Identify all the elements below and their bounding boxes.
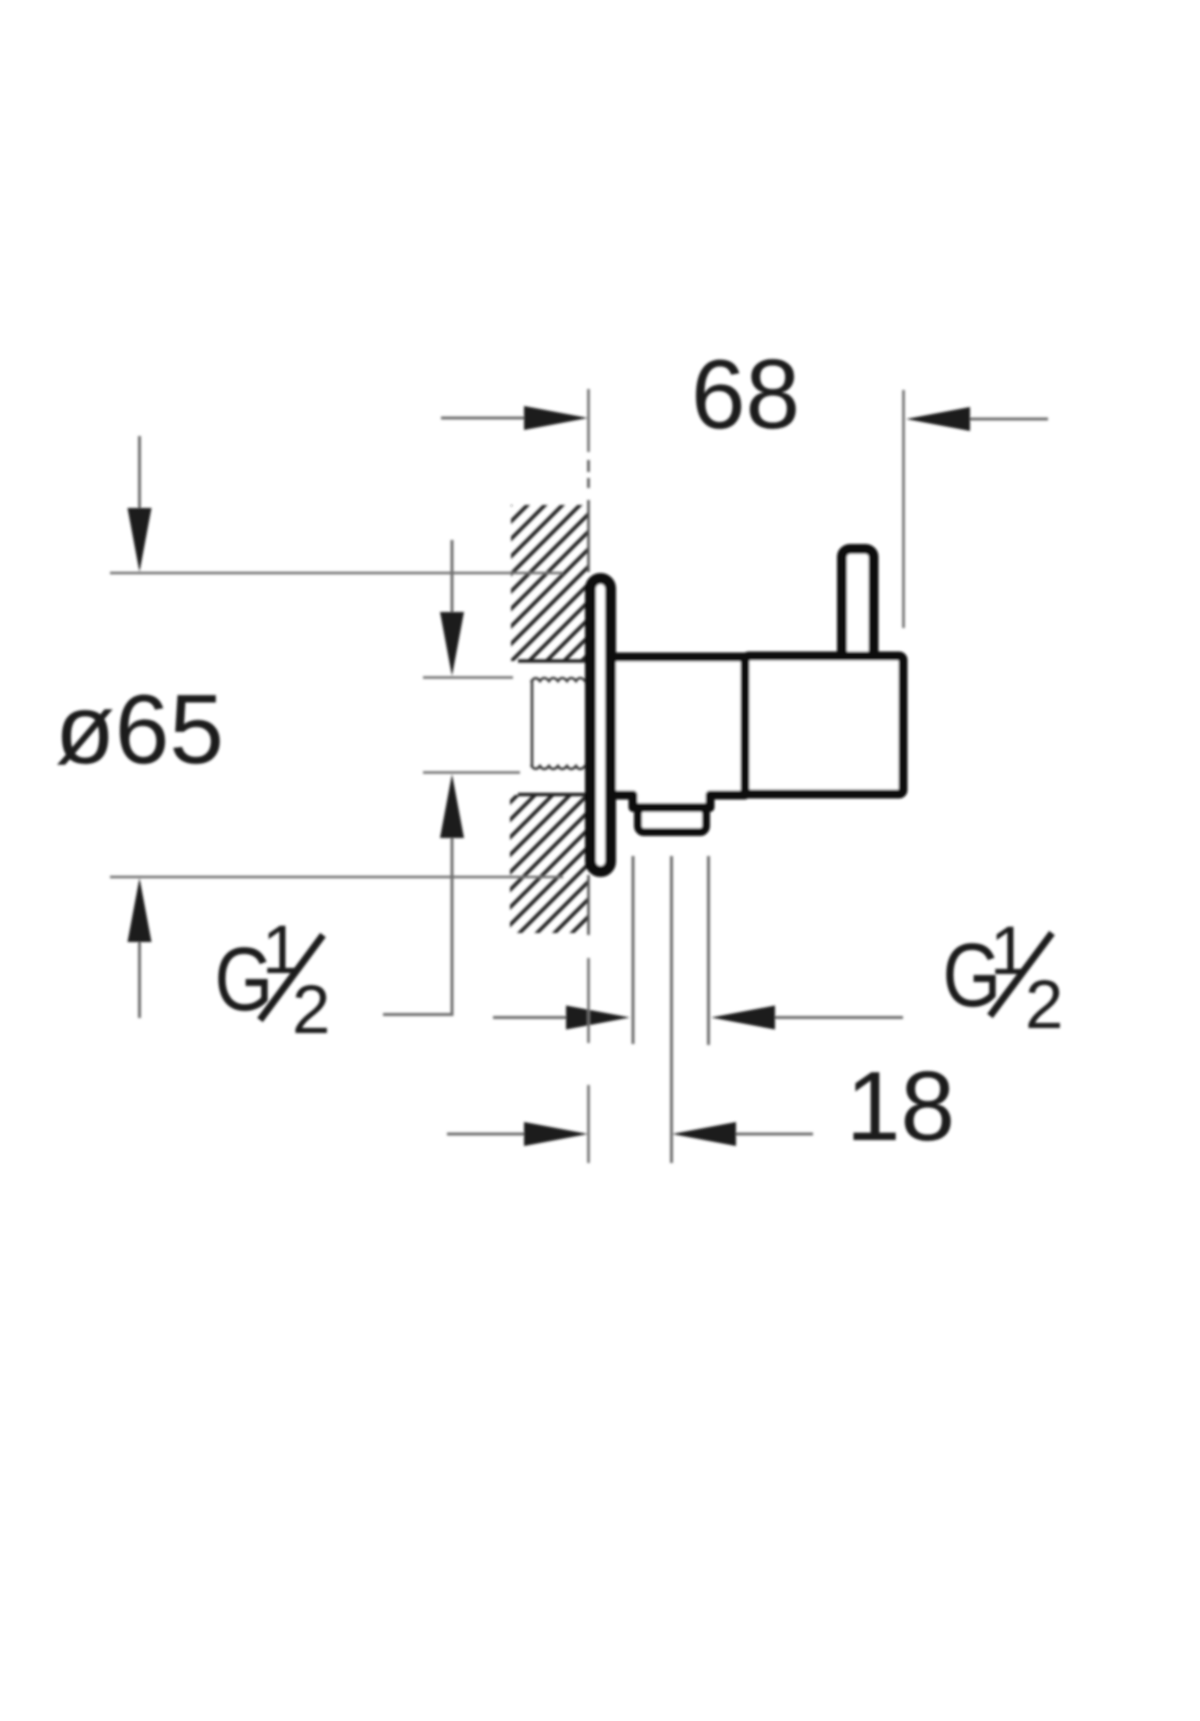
dimension ø65: upper extension line <box>110 572 563 575</box>
dimension 68: left extension line <box>587 389 590 452</box>
dimension 18: left line+arrow <box>447 1133 528 1136</box>
wall face line above flange <box>587 460 590 572</box>
threaded inlet pipe behind wall <box>531 678 590 769</box>
dimension ø65: lower extension line <box>110 876 563 879</box>
inlet thread dim: lower tick <box>423 771 520 774</box>
label G1/2 left <box>215 911 331 1048</box>
dimension ø65: lower arrow (up) <box>138 938 141 1018</box>
svg-text:2: 2 <box>1025 966 1063 1043</box>
wall cavity bottom boundary <box>518 793 588 796</box>
valve body right section outline <box>745 656 903 794</box>
dimension ø65: upper arrow (down) <box>138 436 141 515</box>
dimension 68: right extension line <box>902 390 905 628</box>
label G1/2 right <box>943 912 1064 1043</box>
outlet extension line left <box>632 856 635 1044</box>
wall hatch lower block <box>510 795 588 933</box>
outlet extension line right <box>707 856 710 1045</box>
outlet thread dim (G1/2 right): left line+arrow <box>493 1016 570 1019</box>
inlet thread dim: lower arrow (up) with leader to left G1/2 <box>451 832 454 1014</box>
dimension 18: right line+arrow <box>732 1133 813 1136</box>
wall face line below flange <box>587 875 590 935</box>
left G1/2 leader underline <box>383 1013 454 1016</box>
dimension 68: right line+arrow <box>966 418 1048 421</box>
outlet spout under body <box>638 808 706 833</box>
wall flange (escutcheon, side view) <box>591 579 611 872</box>
inlet thread dim: upper tick <box>423 676 513 679</box>
wall face extension line for 18 dim <box>587 958 590 1163</box>
valve body left section outline with outlet notch <box>612 657 745 808</box>
svg-text:2: 2 <box>292 971 330 1048</box>
outlet extension line center <box>670 856 673 1163</box>
inlet thread dim: upper arrow (down) <box>451 540 454 618</box>
valve body fills <box>616 657 745 795</box>
svg-text:ø65: ø65 <box>55 674 224 784</box>
outlet thread dim (G1/2 right): right line+arrow <box>771 1016 903 1019</box>
svg-text:68: 68 <box>691 339 800 449</box>
svg-text:18: 18 <box>846 1051 955 1161</box>
wall hatch upper block <box>511 505 588 661</box>
wall cavity top boundary <box>518 659 588 662</box>
dimension 68: left line+arrow <box>441 417 528 420</box>
handle lever <box>842 549 874 662</box>
